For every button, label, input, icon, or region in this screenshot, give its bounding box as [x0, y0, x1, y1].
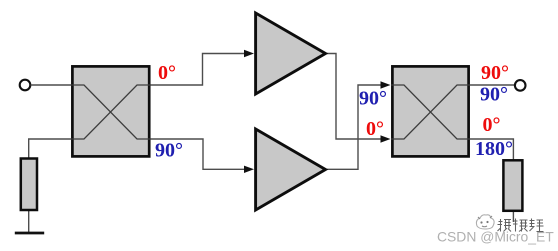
- svg-text:90°: 90°: [481, 62, 509, 84]
- amplifier A1: [256, 13, 326, 94]
- HY1 crossover line a: [71, 85, 151, 139]
- arrowhead into HY2 lower-left port: [381, 135, 391, 142]
- wire HY1 90-deg output to amplifier A2: [151, 139, 246, 169]
- wire R2 to ground: [512, 212, 514, 222]
- resistor R2: [503, 160, 522, 211]
- ground GND1: [15, 232, 44, 235]
- hybrid coupler HY2 box: [392, 66, 468, 156]
- amplifier A2: [256, 129, 326, 210]
- svg-text:0°: 0°: [483, 114, 501, 136]
- HY2 crossover line a: [391, 85, 470, 139]
- HY2 crossover line b: [391, 85, 470, 139]
- wire HY2 output to port P2: [470, 84, 515, 86]
- svg-text:90°: 90°: [359, 87, 387, 109]
- output port P2: [515, 80, 526, 91]
- svg-text:CSDN @Micro_ET: CSDN @Micro_ET: [437, 229, 554, 245]
- watermark logo scribble: [476, 215, 494, 229]
- arrowhead into HY2 upper-left port: [381, 81, 391, 88]
- HY1 crossover line b: [71, 85, 151, 139]
- wire HY1 0-deg output to amplifier A1: [151, 54, 246, 86]
- wire R1 to ground: [28, 211, 30, 233]
- wire A2 output to hybrid HY2 upper input: [327, 85, 382, 169]
- svg-text:0°: 0°: [366, 118, 384, 140]
- svg-text:90°: 90°: [155, 139, 183, 161]
- resistor R1: [21, 159, 37, 211]
- watermark CJK glyphs imitation: [498, 219, 544, 232]
- svg-text:90°: 90°: [480, 84, 508, 106]
- arrowhead into A1: [244, 50, 254, 57]
- hybrid coupler HY1 box: [72, 66, 149, 156]
- wire A1 output to hybrid HY2 lower input: [327, 54, 382, 140]
- arrowhead into A2: [244, 166, 254, 173]
- input port P1: [20, 80, 31, 91]
- svg-text:180°: 180°: [475, 138, 513, 160]
- svg-text:0°: 0°: [158, 62, 176, 84]
- wire input to hybrid HY1: [31, 84, 72, 86]
- wire HY2 isolated port to resistor R2: [470, 139, 514, 160]
- wire HY1 isolated port to resistor R1: [29, 139, 72, 158]
